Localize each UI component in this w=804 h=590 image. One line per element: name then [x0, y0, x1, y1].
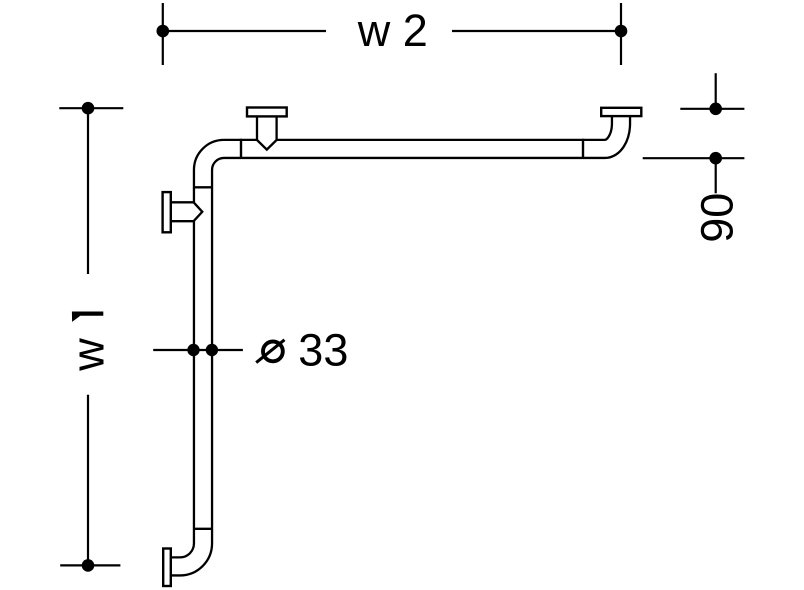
wire dimension w2 line left segment [163, 30, 326, 32]
wire dimension w2 right extension line [620, 3, 622, 65]
svg-text:33: 33 [298, 324, 348, 375]
wire joint tick on vertical tube below corner [193, 186, 213, 188]
node w1 bottom dot [82, 559, 95, 572]
svg-text:w: w [62, 338, 113, 372]
node w1 top dot [82, 102, 95, 115]
node w2 left dot [157, 25, 170, 38]
wire diameter dimension line [153, 349, 243, 351]
node left support stem [171, 202, 203, 221]
svg-text:90: 90 [692, 193, 743, 243]
node w2 right dot [615, 25, 628, 38]
node top support stem [257, 116, 277, 150]
wire 90-dim line to text [715, 158, 717, 193]
node diameter dot right [206, 344, 218, 356]
node label w1 digit 1 (rotated) [72, 312, 103, 322]
node label diameter symbol [263, 342, 283, 362]
wire tube outline (grab bar) [171, 116, 621, 566]
node bottom end wall flange [163, 549, 171, 587]
wire w1 bottom tick [60, 564, 120, 566]
wire w1 top tick [59, 107, 123, 109]
wire 90-dim upper tick [680, 108, 744, 110]
wire 90-dim top extension line [715, 73, 717, 109]
svg-text:w 2: w 2 [357, 5, 428, 56]
wire dimension w1 line lower segment [87, 395, 89, 566]
node 90-dim upper dot [709, 103, 722, 116]
wire dimension w2 left extension line [162, 3, 164, 65]
wire joint tick on horizontal tube near corner [240, 139, 242, 159]
wire dimension w2 line right segment [452, 30, 621, 32]
node left support flange [163, 192, 171, 232]
node diameter dot left [187, 344, 199, 356]
wire 90-dim lower tick [643, 157, 745, 159]
node right end wall flange [601, 108, 641, 116]
wire dimension w1 line upper segment [87, 108, 89, 274]
wire joint tick on horizontal tube near right bend [582, 139, 584, 159]
node top support flange [247, 108, 287, 117]
wire joint tick on vertical tube above bottom bend [193, 528, 213, 530]
node 90-dim lower dot [709, 152, 722, 165]
